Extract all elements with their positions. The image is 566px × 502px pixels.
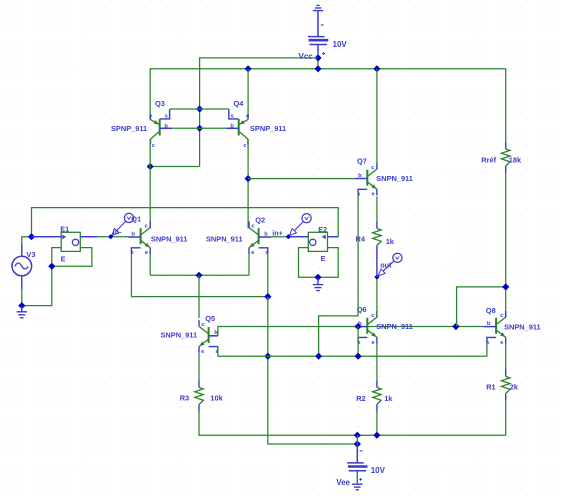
junction (21.8,305.6) <box>18 302 25 309</box>
svg-text:Q4: Q4 <box>234 99 245 108</box>
svg-text:E: E <box>321 254 326 263</box>
svg-text:SNPN_911: SNPN_911 <box>376 322 413 331</box>
junction (318,277.3) <box>314 274 321 281</box>
transistor Q5 (SNPN_911) <box>199 320 219 355</box>
svg-text:Q3: Q3 <box>155 99 165 108</box>
svg-text:R3: R3 <box>180 393 189 402</box>
junction (267.8,296.6) <box>264 293 271 300</box>
wire Q5 substrate to bottom rail <box>218 347 487 357</box>
svg-text:V3: V3 <box>26 250 35 259</box>
svg-text:SNPN_911: SNPN_911 <box>206 234 243 243</box>
wire E1 input pin (blue) <box>32 236 62 238</box>
svg-text:R2: R2 <box>356 394 365 403</box>
wire E1 output pin (blue) <box>80 236 97 238</box>
svg-text:s: s <box>165 114 168 120</box>
svg-text:SNPN_911: SNPN_911 <box>151 234 188 243</box>
wire base rail Q6-Q8 <box>367 326 483 328</box>
svg-text:E1: E1 <box>60 225 69 234</box>
svg-text:b: b <box>230 123 234 129</box>
wire Q7 substrate jog <box>319 194 359 356</box>
ground (top, above V1) <box>313 5 323 10</box>
wire substrate rail Q3-Q4 <box>170 108 229 110</box>
svg-text:SPNP_911: SPNP_911 <box>111 124 147 133</box>
junction (358.1,326.5) <box>355 323 362 330</box>
wire Q6 emitter to R2 <box>376 344 378 381</box>
wire Q3 collector riser <box>149 139 151 228</box>
junction (248.1,68.8) <box>245 65 252 72</box>
wire E2 input pin (blue) <box>328 236 339 238</box>
wire Q6 collector riser <box>376 253 378 317</box>
svg-text:Q5: Q5 <box>205 314 215 323</box>
svg-text:s: s <box>231 114 234 120</box>
svg-text:Q1: Q1 <box>131 214 141 223</box>
wire E1 bottom loop <box>52 248 92 267</box>
wire Q6 substrate drop <box>357 327 359 357</box>
junction (31.5,236.7) <box>28 233 35 240</box>
ground (bottom, below V2) <box>352 483 362 485</box>
svg-text:b: b <box>264 231 268 237</box>
wire E2 output pin (blue) <box>290 236 308 238</box>
wire Vcc rail y69 <box>150 69 506 142</box>
wire emitter rail y275 <box>150 274 249 276</box>
junction (199.0,275.3) <box>195 272 202 279</box>
svg-text:SNPN_911: SNPN_911 <box>376 174 413 183</box>
wire substrate rail y296 <box>131 296 267 298</box>
junction (505.7,286.9) <box>502 283 509 290</box>
wire Q8 substrate to bottom rail <box>486 343 488 356</box>
wire Q1 emitter riser <box>149 254 151 275</box>
transistor Q2 (SNPN_911) <box>249 221 271 256</box>
wire V3 bottom to ground node <box>22 266 52 305</box>
junction (150.2,166.5) <box>147 163 154 170</box>
wire Q2 base to E2 <box>271 236 308 238</box>
transistor Q8 (SNPN_911) <box>484 311 506 346</box>
wire signal rail y207.6 <box>32 208 339 237</box>
junction (51.8,266.3) <box>48 263 55 270</box>
svg-text:b: b <box>358 173 362 179</box>
wire bottom rail A y435 <box>199 401 506 436</box>
svg-text:1k: 1k <box>384 394 393 403</box>
port in+ <box>272 214 311 240</box>
svg-text:b: b <box>164 123 168 129</box>
svg-text:10V: 10V <box>371 466 386 475</box>
svg-text:2k: 2k <box>510 383 519 392</box>
wire base rail Q3-Q4 <box>172 127 226 129</box>
junction (357.3,435.2) <box>354 432 361 439</box>
junction (318,58) <box>314 54 321 61</box>
wire Q7 base <box>248 178 355 180</box>
wire substrate net drop <box>268 297 358 444</box>
wire Q7 collector riser <box>376 69 378 163</box>
ground (E2) <box>313 277 323 290</box>
svg-text:in-: in- <box>113 227 122 236</box>
svg-text:E2: E2 <box>318 225 327 234</box>
wire Q4 collector riser <box>247 139 249 228</box>
junction (199.6,128.3) <box>196 125 203 132</box>
wire jog to Q3 collector <box>150 166 199 168</box>
battery V2 10V (Vee supply) <box>347 445 367 484</box>
wire Vcc stem to rail <box>317 54 319 69</box>
wire battery V2 stem <box>356 435 358 444</box>
wire Q5 base jog to rail <box>218 327 355 336</box>
svg-text:in+: in+ <box>272 229 283 238</box>
wire Q7 emitter to R4 <box>376 197 378 222</box>
wire Rref to Q8 collector <box>505 173 507 318</box>
resistor Rref 18k <box>505 142 507 149</box>
resistor R4 1k <box>376 222 378 229</box>
svg-text:SNPN_911: SNPN_911 <box>161 331 198 340</box>
junction (267.8,356.2) <box>264 353 271 360</box>
transistor Q6 (SNPN_911) <box>355 311 377 346</box>
svg-text:Rréf: Rréf <box>481 156 496 165</box>
junction (248.1,178.6) <box>245 175 252 182</box>
wire E1 out to Q1 base <box>80 236 128 238</box>
wire Q8 collector to base (diode link) <box>457 287 506 327</box>
junction (376.9,68.8) <box>373 65 380 72</box>
controlled source E2 <box>308 232 327 251</box>
transistor Q3 (SPNP_911) <box>149 109 172 149</box>
svg-text:b: b <box>131 231 135 237</box>
svg-text:SNPN_911: SNPN_911 <box>504 322 541 331</box>
wire E2 bottom loop <box>299 248 339 278</box>
svg-text:SPNP_911: SPNP_911 <box>250 124 286 133</box>
source V3 (sine) <box>12 244 32 290</box>
svg-text:b: b <box>487 321 491 327</box>
junction (199.6,109) <box>196 105 203 112</box>
resistor R3 10k <box>198 381 200 388</box>
wire V3 top to E1 input <box>22 237 61 244</box>
resistor R1 2k <box>505 370 507 377</box>
wire Q8 emitter to R1 <box>505 344 507 370</box>
svg-text:R4: R4 <box>356 235 366 244</box>
junction (357.3,444.0) <box>354 440 361 447</box>
svg-text:10V: 10V <box>333 40 348 49</box>
wire Q2 emitter riser <box>248 254 250 275</box>
svg-text:Q6: Q6 <box>357 305 367 314</box>
svg-text:Q2: Q2 <box>255 215 265 224</box>
wire Q2 substrate riser <box>267 253 269 296</box>
ground (V3) <box>17 306 27 318</box>
wire Q4 emitter riser <box>247 69 249 115</box>
wire R2 bottom <box>376 412 378 436</box>
svg-text:Q8: Q8 <box>486 306 496 315</box>
wire Q5 emitter to R3 <box>198 353 200 381</box>
wire E2 input from riser <box>328 236 339 238</box>
junction (455.9,326.5) <box>452 323 459 330</box>
controlled source E1 <box>61 232 80 251</box>
svg-text:10k: 10k <box>210 393 223 402</box>
wire tail to Q5 collector <box>198 275 200 318</box>
transistor Q1 (SNPN_911) <box>128 221 150 256</box>
svg-text:Vee: Vee <box>336 478 350 487</box>
transistor Q4 (SPNP_911) <box>226 109 250 149</box>
junction (358.1,356.2) <box>355 353 362 360</box>
junction (376.9,435.2) <box>373 432 380 439</box>
junction (318.6,356.2) <box>315 353 322 360</box>
junction (318,68.8) <box>314 65 321 72</box>
resistor R2 1k <box>376 381 378 388</box>
wire rail1 y58 to left <box>200 58 318 167</box>
svg-text:R1: R1 <box>486 383 495 392</box>
wire Q1 substrate riser <box>130 253 132 296</box>
port in- <box>108 213 134 239</box>
svg-text:E: E <box>61 254 66 263</box>
svg-text:Vcc: Vcc <box>299 52 314 61</box>
battery V1 10V (Vcc supply) <box>308 11 328 55</box>
wire R4 lead to out node <box>376 252 378 277</box>
svg-text:Q7: Q7 <box>357 157 367 166</box>
svg-text:1k: 1k <box>386 237 395 246</box>
svg-text:out: out <box>380 260 392 269</box>
svg-text:18k: 18k <box>509 156 522 165</box>
port out <box>374 253 402 279</box>
transistor Q7 (SNPN_911) <box>355 163 377 198</box>
